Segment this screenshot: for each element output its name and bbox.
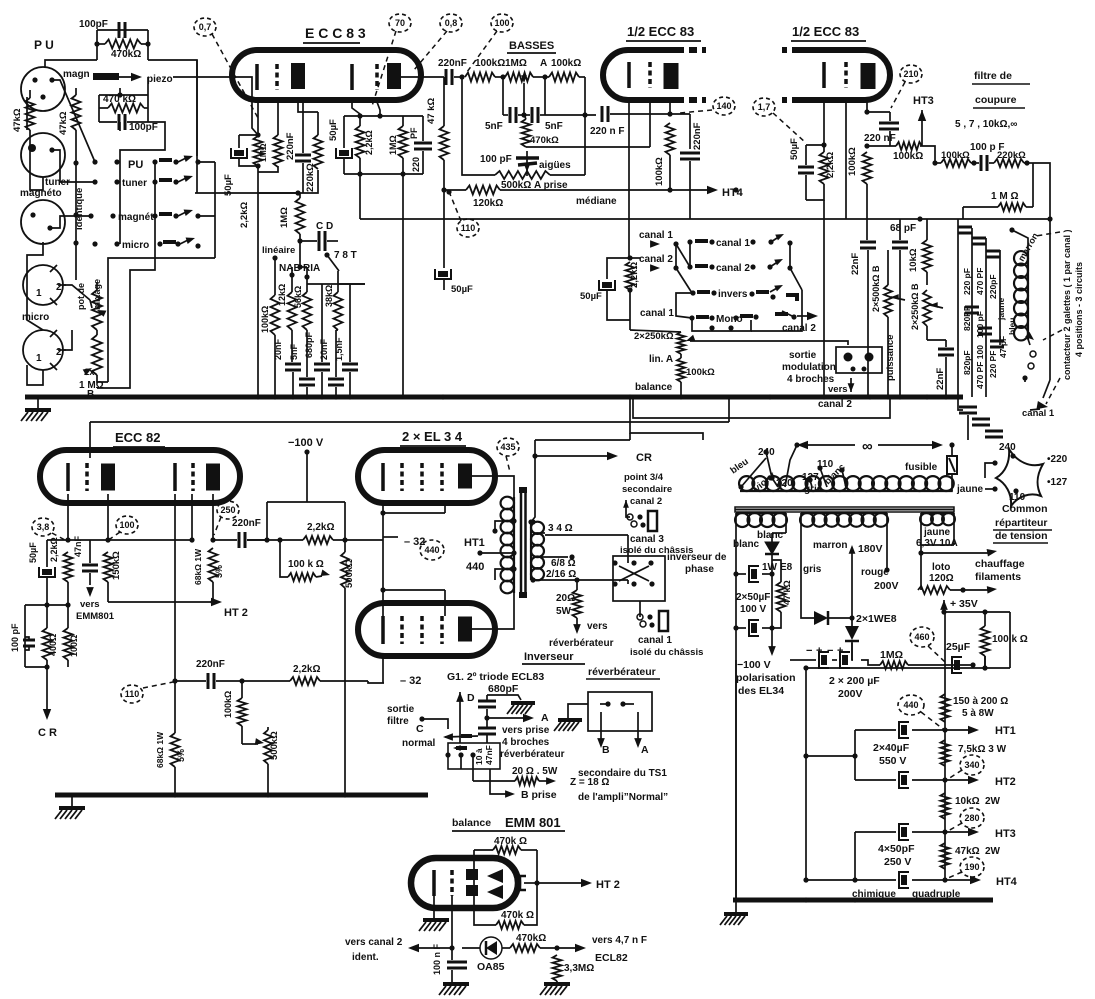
triode1 1M resistor: [254, 136, 263, 166]
svg-text:canal 2: canal 2: [782, 323, 816, 334]
svg-text:A: A: [641, 744, 649, 756]
basses network box: [461, 77, 463, 172]
svg-text:de tension: de tension: [995, 530, 1048, 542]
svg-text:2 × 200 µF: 2 × 200 µF: [829, 675, 880, 687]
svg-text:22nF: 22nF: [850, 253, 861, 275]
wires half1 pins down: [628, 102, 630, 258]
ground 3,3M: [540, 984, 570, 995]
svg-text:canal 3: canal 3: [630, 534, 664, 545]
resistor 68k 1W lower: [171, 733, 180, 767]
svg-text:50µF: 50µF: [328, 119, 339, 141]
svg-text:Mono: Mono: [716, 314, 743, 325]
svg-text:7,5kΩ 3 W: 7,5kΩ 3 W: [958, 744, 1007, 755]
emm cathode bar: [432, 870, 436, 896]
svg-text:canal 2: canal 2: [630, 496, 662, 507]
svg-text:110: 110: [125, 689, 140, 699]
OPT secondary top dot: [528, 519, 533, 524]
selector PU contact: [152, 159, 157, 164]
svg-text:BASSES: BASSES: [509, 40, 554, 52]
ecc82 cathode1 wire: [67, 494, 69, 540]
tube ECC83: [232, 50, 421, 100]
svg-text:loto: loto: [932, 562, 950, 573]
svg-text:tuner: tuner: [122, 178, 147, 189]
resistor 100k riaa: [271, 295, 280, 335]
resistor 38k riaa: [334, 292, 343, 330]
wire filter to rail: [1033, 163, 1050, 219]
coil top wire: [1012, 230, 1028, 252]
svg-text:7 8 T: 7 8 T: [334, 250, 357, 261]
svg-text:470kΩ: 470kΩ: [530, 135, 559, 146]
svg-text:HT4: HT4: [996, 876, 1018, 888]
B prise arrow: [490, 769, 508, 794]
winding frames: [735, 513, 737, 900]
cap 22nF col1: [860, 241, 876, 244]
cap 680pF upper: [478, 700, 496, 703]
HT3 arrow ht: [942, 829, 947, 834]
svg-text:blanc: blanc: [733, 539, 760, 550]
voltage circle 100: [491, 14, 513, 32]
cap 100pF filter: [980, 155, 983, 171]
svg-text:ident.: ident.: [352, 952, 379, 963]
voltage circle 0,7: [194, 18, 216, 36]
tube EL34 upper: [358, 450, 495, 503]
svg-text:– 32: – 32: [404, 536, 425, 548]
half2 grid rail: [845, 102, 847, 219]
HT2 wire arrow: [108, 601, 216, 603]
2,2k resistor canal: [626, 262, 635, 290]
OPT primary loops: [501, 497, 514, 594]
svg-text:pot de: pot de: [76, 283, 86, 310]
svg-text:+: +: [837, 645, 843, 657]
inverseur box: [448, 743, 500, 769]
svg-text:sortie: sortie: [789, 350, 817, 361]
svg-text:vers prise: vers prise: [502, 725, 550, 736]
elco 4x50 b: [899, 872, 909, 888]
svg-text:150 à 200 Ω: 150 à 200 Ω: [953, 696, 1008, 707]
connector PU magn: [21, 67, 65, 111]
svg-text:balance: balance: [635, 382, 673, 393]
svg-text:435: 435: [500, 442, 515, 452]
-100V node wire: [304, 449, 309, 454]
svg-text:canal 1: canal 1: [716, 238, 750, 249]
6,3V heater wires: [920, 545, 922, 590]
svg-text:5%: 5%: [214, 565, 224, 578]
sec tap 3-4ohm: [533, 532, 545, 534]
canal1 switch lower: [659, 611, 668, 631]
svg-text:12kΩ: 12kΩ: [277, 284, 287, 306]
tube EMM801: [411, 858, 518, 908]
svg-text:110: 110: [1009, 492, 1026, 503]
resistor 470k basses: [522, 119, 531, 147]
svg-text:ECL82: ECL82: [595, 952, 628, 964]
emm ground: [433, 883, 435, 918]
35V box: [944, 611, 1010, 613]
svg-text:rouge: rouge: [861, 567, 889, 578]
svg-text:HT1: HT1: [464, 537, 485, 549]
svg-text:4 positions - 3 circuits: 4 positions - 3 circuits: [1074, 262, 1084, 357]
gris wire: [801, 533, 814, 618]
voltage circle 3,8: [32, 518, 54, 536]
selector magnet row: [88, 213, 93, 218]
svg-text:47kΩ: 47kΩ: [12, 108, 23, 132]
arrow from right into pot: [690, 341, 848, 345]
svg-text:440: 440: [424, 545, 439, 555]
svg-text:2×250kΩ: 2×250kΩ: [634, 331, 674, 342]
half1 cathode bar: [627, 62, 631, 88]
svg-text:vers: vers: [80, 599, 100, 610]
emm fans: [487, 869, 503, 883]
svg-text:A: A: [540, 58, 547, 69]
svg-text:180V: 180V: [858, 543, 883, 555]
svg-text:100kΩ: 100kΩ: [223, 691, 233, 718]
svg-text:1MΩ: 1MΩ: [258, 143, 268, 162]
diode 2x1WE8 a: [814, 611, 828, 625]
svg-text:400Ω: 400Ω: [48, 634, 58, 656]
svg-text:+: +: [816, 645, 822, 657]
svg-text:contacteur 2 galettes ( 1 par: contacteur 2 galettes ( 1 par canal ): [1062, 229, 1072, 380]
svg-text:réverbérateur: réverbérateur: [549, 638, 614, 649]
reverb contacts: [605, 701, 610, 706]
svg-text:220nF: 220nF: [196, 659, 225, 670]
grid2 wire: [191, 494, 193, 540]
svg-text:−: −: [827, 645, 833, 657]
svg-text:500kΩ: 500kΩ: [344, 559, 355, 588]
voltage circle 340: [960, 755, 984, 775]
reverb box: [588, 692, 652, 731]
filter row: [932, 160, 937, 165]
47k grid resistor: [440, 126, 449, 160]
emm grid wire down: [451, 895, 453, 948]
svg-text:C R: C R: [38, 727, 57, 739]
voltage circle 190: [960, 857, 984, 877]
svg-text:−: −: [806, 645, 812, 657]
svg-text:47nF: 47nF: [484, 745, 494, 765]
resistor 100k filter: [941, 159, 971, 167]
svg-text:20Ω: 20Ω: [556, 593, 575, 604]
svg-text:47 kΩ: 47 kΩ: [426, 98, 437, 124]
switch column lines: [676, 244, 690, 267]
tube half ECC83 second: [800, 50, 890, 100]
svg-text:2,2kΩ: 2,2kΩ: [307, 522, 334, 533]
svg-text:∞: ∞: [862, 438, 873, 455]
svg-text:2×40µF: 2×40µF: [873, 742, 910, 754]
bus3 dots: [803, 897, 808, 902]
OPT primary taps: [511, 518, 516, 523]
svg-text:piezo: piezo: [147, 74, 173, 85]
svg-text:47 pF: 47 pF: [998, 336, 1008, 358]
HT3 arrow: [918, 110, 926, 121]
svg-text:EMM 801: EMM 801: [505, 815, 561, 830]
el34b plate wire to OPT: [472, 593, 514, 629]
half2 grid dashed: [844, 62, 848, 88]
svg-text:240: 240: [999, 442, 1016, 453]
svg-text:5 à 8W: 5 à 8W: [962, 708, 994, 719]
svg-text:470kΩ: 470kΩ: [111, 49, 141, 60]
el34b grid bars: [381, 616, 385, 644]
diode 2x1WE8 b: [845, 626, 859, 640]
svg-text:100: 100: [494, 18, 509, 28]
svg-text:220kΩ: 220kΩ: [997, 150, 1026, 161]
ECC83 cathode bar t1: [255, 64, 259, 90]
svg-text:blanc: blanc: [757, 530, 784, 541]
svg-text:NAB: NAB: [279, 263, 301, 274]
feedback takeoff: [359, 174, 361, 219]
svg-text:HT 2: HT 2: [596, 879, 620, 891]
resistor 47k ht: [941, 843, 950, 869]
el34b plate: [458, 617, 472, 642]
svg-text:550 V: 550 V: [879, 755, 906, 767]
svg-text:HT4: HT4: [722, 187, 744, 199]
svg-text:de l'ampli”Normal”: de l'ampli”Normal”: [578, 792, 668, 803]
svg-text:5 , 7 , 10kΩ,∞: 5 , 7 , 10kΩ,∞: [955, 119, 1017, 130]
svg-text:38kΩ: 38kΩ: [324, 285, 334, 307]
bus node dots: [255, 394, 260, 399]
svg-text:100pF: 100pF: [79, 19, 108, 30]
svg-text:220pF: 220pF: [988, 274, 998, 299]
svg-text:1/2 ECC 83: 1/2 ECC 83: [627, 24, 694, 39]
wire identique rail: [75, 163, 77, 280]
feedback wire y422: [90, 421, 729, 423]
svg-text:150kΩ: 150kΩ: [111, 551, 122, 580]
normal arrow: [443, 733, 453, 741]
wire PU connector to network: [45, 60, 97, 67]
svg-text:jaune: jaune: [956, 484, 984, 495]
vers canal 2 arrow: [415, 947, 452, 949]
svg-text:200V: 200V: [874, 580, 899, 592]
50uF ecc82: [39, 567, 55, 577]
long feedback wire y219: [360, 218, 1050, 220]
svg-text:68 pF: 68 pF: [890, 223, 916, 234]
resistor 2,2k half2: [820, 152, 829, 184]
ECC83 plate t2: [387, 63, 401, 89]
svg-text:50µF: 50µF: [28, 542, 38, 563]
cap 470pF a: [972, 237, 986, 240]
t2 grid resistor 1M: [399, 126, 408, 158]
resistor 7,5k: [941, 740, 950, 766]
resistor 400ohm: [43, 628, 52, 660]
svg-text:−100 V: −100 V: [737, 659, 771, 671]
svg-text:100kΩ: 100kΩ: [686, 367, 715, 378]
t2 network bottom wire: [344, 173, 423, 175]
svg-text:47nF: 47nF: [73, 535, 83, 557]
resistor 100k HT3: [896, 142, 922, 150]
svg-text:lin. A: lin. A: [649, 354, 673, 365]
left rail -100 bottom: [735, 660, 737, 900]
svg-text:HT1: HT1: [995, 725, 1016, 737]
HT2 arrow emm: [537, 882, 585, 884]
elco 4x50 a: [899, 824, 909, 840]
reverb A arrow: [637, 712, 639, 742]
ECC83 cathode bar t2: [350, 64, 354, 90]
rouge wire: [886, 533, 888, 570]
svg-text:isolé du châssis: isolé du châssis: [630, 647, 703, 658]
-100V arrow out: [771, 628, 773, 648]
svg-text:normal: normal: [402, 738, 436, 749]
resistor 150-200ohm: [941, 694, 950, 722]
ground 100nF: [439, 984, 469, 995]
svg-text:1W: 1W: [762, 562, 778, 573]
svg-text:RIA: RIA: [303, 263, 320, 274]
svg-text:100kΩ: 100kΩ: [551, 58, 581, 69]
cap inverseur lower: [478, 727, 496, 730]
selector tuner row: [92, 179, 97, 184]
svg-text:100 pF: 100 pF: [975, 311, 985, 338]
50uF decoupling t2: [435, 269, 451, 279]
2,2k ecc82: [64, 552, 73, 582]
svg-text:5nF: 5nF: [485, 121, 503, 132]
svg-text:jaune: jaune: [996, 298, 1006, 321]
resistor 470kohm top: [105, 40, 141, 49]
svg-text:220 pF: 220 pF: [962, 268, 972, 295]
svg-text:68kΩ 1W: 68kΩ 1W: [193, 548, 203, 585]
emm target: [520, 876, 526, 890]
svg-text:100 V: 100 V: [740, 604, 766, 615]
svg-text:5nF: 5nF: [545, 121, 563, 132]
svg-text:20nF: 20nF: [273, 338, 283, 360]
t2 1M rail to bus: [402, 174, 404, 397]
ECC82 plate1: [101, 464, 115, 491]
svg-text:HT3: HT3: [995, 828, 1016, 840]
svg-text:100 pF: 100 pF: [10, 623, 20, 652]
2x50uF elco a: [749, 566, 759, 582]
resistor 47kohm left: [26, 98, 35, 130]
svg-text:2/16 Ω: 2/16 Ω: [546, 569, 576, 580]
repartiteur wires: [985, 463, 995, 478]
t2 cathode elco 50uF: [336, 148, 352, 158]
svg-text:vers canal 2: vers canal 2: [345, 937, 403, 948]
sec tap 2/16ohm: [533, 579, 628, 581]
svg-text:100kΩ: 100kΩ: [893, 151, 923, 162]
1M resistor mid: [296, 198, 305, 234]
100k hum resistor: [981, 626, 990, 656]
switch row canal1: [687, 239, 692, 244]
svg-text:vers: vers: [587, 621, 608, 632]
pot 500k fb: [341, 552, 349, 588]
A arrow: [487, 717, 528, 719]
arrow D: [456, 692, 464, 702]
repartiteur star: [996, 449, 1043, 506]
svg-text:2,2kΩ: 2,2kΩ: [293, 664, 320, 675]
voltage circle 435: [497, 438, 519, 456]
svg-text:canal 2: canal 2: [818, 399, 852, 410]
cap 47pF: [990, 340, 1004, 343]
svg-text:sortie: sortie: [387, 704, 415, 715]
secondary right winding: [920, 513, 955, 525]
left rail 4x50: [854, 832, 856, 880]
svg-text:magn: magn: [63, 69, 90, 80]
svg-text:6/8 Ω: 6/8 Ω: [551, 558, 576, 569]
svg-text:3 4 Ω: 3 4 Ω: [548, 523, 573, 534]
resistor 3,3M: [553, 955, 562, 981]
el34a plate wire to OPT: [472, 476, 514, 497]
CR wire from OPT: [531, 440, 535, 522]
svg-text:47kΩ: 47kΩ: [58, 111, 69, 135]
svg-text:EMM801: EMM801: [76, 611, 115, 622]
svg-text:HT3: HT3: [913, 95, 934, 107]
svg-text:canal 1: canal 1: [638, 635, 672, 646]
cap 820pF a: [958, 226, 972, 229]
svg-text:balance: balance: [452, 817, 491, 829]
svg-text:2x: 2x: [84, 367, 95, 378]
voltage circle 1,7: [753, 98, 775, 116]
reverb ground: [568, 704, 588, 718]
wire 250 box right: [264, 537, 269, 542]
svg-text:invers: invers: [718, 289, 748, 300]
wire basses out to 220nF: [582, 112, 587, 117]
svg-text:100 n F: 100 n F: [432, 943, 442, 975]
180V arrow: [849, 545, 856, 554]
svg-text:100kΩ: 100kΩ: [260, 306, 270, 333]
svg-text:2,2kΩ: 2,2kΩ: [825, 152, 836, 178]
elco 2x200 a: [819, 652, 829, 668]
connector micro 1: [23, 265, 63, 305]
ht rail vertical: [944, 612, 946, 880]
dashed pointer 0,8: [414, 31, 447, 70]
dashed pointer 0,7: [212, 34, 258, 118]
svg-text:120kΩ: 120kΩ: [473, 198, 503, 209]
svg-text:répartiteur: répartiteur: [995, 517, 1048, 529]
svg-text:20nF: 20nF: [319, 338, 329, 360]
canal1 arrow contact: [650, 240, 660, 248]
ecc82 t2 row y681: [172, 678, 177, 683]
long wire HT4: [444, 189, 466, 191]
svg-text:56kΩ: 56kΩ: [293, 286, 303, 308]
svg-text:100: 100: [119, 520, 134, 530]
diode 1WE8: [765, 542, 779, 554]
svg-text:jaune: jaune: [923, 527, 951, 538]
svg-text:220nF: 220nF: [232, 518, 261, 529]
voltage circle 250: [217, 501, 239, 519]
el34a grid bars: [381, 463, 385, 491]
sec tap 6/8ohm: [533, 556, 568, 558]
canal2 arrow out: [775, 312, 788, 316]
svg-text:2,2kΩ: 2,2kΩ: [49, 537, 59, 562]
svg-text:vers 4,7 n F: vers 4,7 n F: [592, 935, 647, 946]
selector rows left dots: [92, 159, 97, 164]
svg-text:100kΩ: 100kΩ: [475, 58, 505, 69]
svg-text:220 PF: 220 PF: [988, 351, 998, 378]
svg-text:190: 190: [964, 862, 979, 872]
2x50uF elco b: [749, 620, 759, 636]
+35V arrow: [940, 600, 948, 610]
ECC83 plate t1: [291, 63, 305, 89]
wire t1 plate down: [298, 102, 318, 112]
svg-text:220nF: 220nF: [692, 122, 703, 150]
svg-text:20 Ω . 5W: 20 Ω . 5W: [512, 766, 558, 777]
half2 cathode bar: [822, 62, 826, 88]
svg-text:filtre de: filtre de: [974, 70, 1012, 82]
-100V network box: [267, 501, 345, 503]
mains top wire: [797, 441, 808, 449]
half2 plate: [861, 63, 876, 89]
OPT core: [520, 490, 523, 592]
pot 500k lower: [264, 730, 272, 764]
svg-text:110: 110: [461, 223, 476, 233]
svg-text:fusible: fusible: [905, 462, 938, 473]
switch right rail: [789, 243, 791, 268]
piezo arrow: [93, 73, 119, 80]
primary tap wires: [738, 484, 743, 489]
right rail down: [1049, 219, 1051, 380]
wire canal1 to pot: [630, 330, 681, 332]
node dots 470k network: [94, 41, 99, 46]
ground symbol 2: [71, 795, 73, 806]
wire cathode junction down: [257, 172, 259, 193]
canal2 wire y433: [630, 397, 703, 440]
svg-text:820PF: 820PF: [962, 306, 972, 331]
wire 680pF to ground: [487, 695, 521, 700]
cap 220pF a: [986, 250, 1000, 253]
